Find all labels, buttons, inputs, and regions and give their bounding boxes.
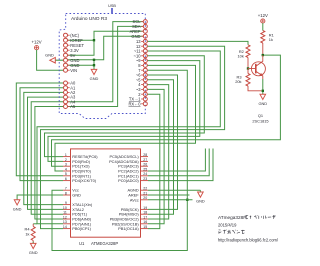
- ATmega328P right pins 15-28: [109, 153, 148, 231]
- wire U1 pin25 row: [148, 149, 205, 172]
- wire U1 pin24 row: [148, 149, 209, 176]
- wire D5 to U1 pin18: [147, 80, 173, 214]
- wire R4 top: [32, 224, 34, 227]
- svg-text:http://radiopench.blog96.fc2.c: http://radiopench.blog96.fc2.com/: [218, 237, 279, 242]
- svg-text:USB: USB: [108, 4, 116, 8]
- svg-text:A5: A5: [70, 104, 76, 109]
- Arduino analog pin header A0-A5: [64, 81, 77, 110]
- wire A3 to U1: [28, 97, 64, 209]
- svg-text:PD4(XCK/T0): PD4(XCK/T0): [72, 178, 96, 183]
- svg-text:12: 12: [63, 215, 67, 219]
- wire AREF/IOREF/5V rail: [68, 31, 144, 55]
- svg-text:19: 19: [143, 206, 147, 210]
- svg-text:GND: GND: [45, 52, 54, 57]
- ground below Arduino: [90, 68, 99, 81]
- wire D9 to U1 pin2: [48, 61, 200, 162]
- wire D2 to U1 pin15: [147, 94, 160, 228]
- svg-text:20: 20: [143, 196, 147, 200]
- svg-text:24: 24: [143, 172, 147, 176]
- svg-text:3: 3: [65, 163, 67, 167]
- svg-text:+12V: +12V: [258, 13, 268, 18]
- svg-text:13: 13: [63, 220, 67, 224]
- svg-text:16: 16: [143, 220, 147, 224]
- svg-text:11: 11: [63, 211, 67, 215]
- svg-text:26: 26: [143, 163, 147, 167]
- wire D8 to U1 pin4: [55, 65, 196, 171]
- svg-text:28: 28: [143, 153, 147, 157]
- svg-text:PC0(ADC0): PC0(ADC0): [118, 178, 139, 183]
- svg-text:GND: GND: [72, 193, 81, 198]
- svg-text:Q1: Q1: [258, 113, 263, 118]
- wire GND pin join: [68, 64, 95, 66]
- junction collector node: [262, 54, 264, 56]
- wire A1 to U1: [20, 88, 64, 181]
- ground below R4: [29, 242, 38, 255]
- ATmega328P U1 body: [71, 149, 141, 237]
- wire D7 Vcc loop: [52, 70, 187, 250]
- wire IOREF join: [68, 39, 95, 41]
- ground left of U1: [13, 198, 22, 211]
- resistor R3 20k: [247, 69, 249, 74]
- svg-text:ATMEGA328P: ATMEGA328P: [91, 241, 118, 246]
- wire D13 to R2: [147, 41, 248, 44]
- svg-text:9: 9: [65, 201, 67, 205]
- wire AVcc pin20: [148, 199, 193, 201]
- wire emitter down: [262, 79, 264, 93]
- svg-text:2SC1815: 2SC1815: [252, 118, 268, 123]
- wire AGND pin22: [148, 189, 200, 191]
- wire D11 to U1 pin13: [37, 51, 220, 224]
- wire R4 bottom: [32, 241, 34, 244]
- junction GND 1: [93, 59, 95, 61]
- ground AGND: [196, 190, 205, 203]
- wire D3 to U1 pin16: [147, 89, 164, 223]
- wire A4 to U1: [31, 102, 63, 214]
- Arduino right pin header (digital): [128, 19, 147, 106]
- svg-text:17: 17: [143, 215, 147, 219]
- ground left of Arduino: [45, 52, 63, 63]
- svg-text:25: 25: [143, 167, 147, 171]
- svg-text:U1: U1: [79, 241, 85, 246]
- transistor Q1 2SC1815: [248, 55, 269, 123]
- resistor R2 body: [246, 45, 250, 58]
- svg-text:PB1(OC1A): PB1(OC1A): [118, 226, 139, 231]
- svg-text:27: 27: [143, 158, 147, 162]
- wire D12 to U1 pin14: [41, 46, 225, 228]
- wire A5 to U1: [35, 107, 64, 220]
- resistor R1 body: [261, 31, 265, 44]
- svg-text:1k: 1k: [269, 37, 273, 42]
- resistor R3 body: [246, 74, 250, 87]
- junction base node: [247, 67, 249, 69]
- wire SDA to A5: [68, 26, 144, 106]
- svg-text:18: 18: [143, 211, 147, 215]
- svg-text:10k: 10k: [238, 54, 244, 59]
- wire U1 pin23 row: [148, 149, 213, 181]
- Arduino left pin header (power): [64, 33, 85, 73]
- USB connector tick: [111, 8, 113, 13]
- resistor R4 body: [31, 226, 35, 240]
- wire GND right header: [68, 36, 144, 60]
- svg-text:8: 8: [65, 191, 67, 195]
- wire D10 to U1 pin1: [45, 56, 205, 157]
- wire R1 to collector node: [262, 43, 264, 55]
- svg-text:AVcc: AVcc: [130, 197, 139, 202]
- svg-text:7: 7: [65, 187, 67, 191]
- svg-text:2: 2: [65, 158, 67, 162]
- power +12V (right): [258, 13, 268, 23]
- svg-text:1: 1: [65, 153, 67, 157]
- svg-text:GND: GND: [90, 76, 99, 81]
- wire +12V to R1: [262, 23, 264, 30]
- svg-text:GND: GND: [196, 199, 205, 204]
- svg-text:+12V: +12V: [32, 40, 42, 45]
- svg-text:14: 14: [63, 225, 67, 229]
- junction IOREF: [93, 39, 95, 41]
- junction GND 2: [93, 64, 95, 66]
- wire A2 to U1: [24, 92, 64, 204]
- svg-text:2015/4/19: 2015/4/19: [218, 222, 237, 227]
- svg-text:15: 15: [143, 225, 147, 229]
- svg-text:5: 5: [65, 172, 67, 176]
- svg-text:GND: GND: [258, 101, 267, 106]
- wire SCL to A4: [68, 22, 144, 102]
- svg-text:10: 10: [63, 206, 67, 210]
- wire R4 tap: [33, 223, 37, 225]
- wire collector to U1 pin3: [52, 55, 281, 166]
- power +12V (left): [32, 40, 42, 50]
- wire U1 pin8 GND: [17, 195, 63, 198]
- svg-text:21: 21: [143, 191, 147, 195]
- svg-text:1k: 1k: [25, 231, 29, 236]
- wire GND drop: [93, 60, 95, 68]
- svg-text:PB0(ICP1): PB0(ICP1): [72, 226, 91, 231]
- junction emitter R3: [262, 90, 264, 92]
- ATmega328P left pins 1-14: [63, 153, 98, 231]
- svg-text:GND: GND: [29, 250, 38, 255]
- svg-text:Arduino UNO R3: Arduino UNO R3: [71, 16, 107, 22]
- junction AVcc tap: [186, 199, 188, 201]
- svg-text:22: 22: [143, 187, 147, 191]
- wire +12V to VIN: [37, 50, 64, 70]
- svg-text:20k: 20k: [235, 79, 241, 84]
- wire D6 to U1 pin19: [147, 75, 177, 209]
- svg-text:ATmega328P: ATmega328P: [218, 215, 246, 220]
- svg-text:RX←0: RX←0: [128, 101, 141, 106]
- svg-text:23: 23: [143, 177, 147, 181]
- svg-text:GND: GND: [13, 206, 22, 211]
- wire AREF pin21: [148, 194, 190, 196]
- Arduino UNO R3 dashed outline: [59, 14, 145, 119]
- svg-text:6: 6: [65, 177, 67, 181]
- wire A0 to U1: [16, 83, 63, 176]
- svg-text:VIN: VIN: [70, 68, 77, 73]
- wire D4 to U1 pin17: [147, 85, 169, 219]
- wire R2 to base node: [247, 58, 249, 69]
- ground below Q1: [258, 93, 267, 106]
- svg-text:4: 4: [65, 167, 67, 171]
